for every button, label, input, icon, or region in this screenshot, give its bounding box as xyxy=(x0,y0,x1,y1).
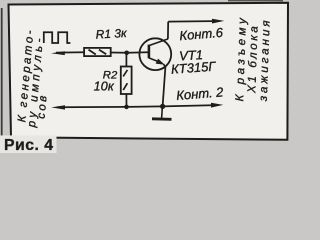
svg-text:КТ315Г: КТ315Г xyxy=(171,59,217,77)
resistor R2 power marks xyxy=(123,70,127,90)
label: К разъему X1 блока зажигания (right, rotated) xyxy=(234,14,273,102)
transistor emitter lead xyxy=(149,58,160,62)
node: emitter junction dot xyxy=(160,104,165,109)
resistor R1 body xyxy=(84,48,111,56)
wire: top rail to Конт.6 arrow xyxy=(168,20,213,23)
pulse waveform symbol xyxy=(44,32,71,43)
wire: R1 to base junction xyxy=(111,52,127,54)
transistor emitter arrow head xyxy=(156,59,165,65)
scan edge dark strip left xyxy=(1,8,3,141)
wire: bottom rail to Конт.2 arrow xyxy=(163,105,212,106)
transistor emitter continuation xyxy=(164,64,166,67)
arrow head: Конт.6 xyxy=(212,19,224,24)
svg-text:R1 3к: R1 3к xyxy=(95,26,128,42)
wire: input to R1 xyxy=(56,51,84,53)
figure caption box xyxy=(0,135,57,153)
frame interior xyxy=(9,3,289,140)
label: К генератору импульсов (left, rotated) xyxy=(16,27,49,128)
transistor base bar xyxy=(148,45,151,59)
resistor R2 body xyxy=(121,67,132,95)
wire: junction to transistor base xyxy=(127,51,149,54)
ground xyxy=(152,106,172,119)
transistor collector lead xyxy=(149,39,168,46)
svg-text:сов: сов xyxy=(36,93,50,119)
scan edge dark line top right xyxy=(228,0,283,1)
wire: R2 bottom lead xyxy=(125,94,127,107)
wire: bottom rail middle segment xyxy=(127,105,163,108)
node: R2 bottom junction dot xyxy=(124,105,129,110)
scan background outer xyxy=(0,0,297,153)
arrow head: to pulse generator (upper left) xyxy=(51,51,65,55)
wire: emitter vertical xyxy=(163,67,166,106)
frame border xyxy=(9,3,289,140)
wire: R2 top lead xyxy=(125,53,127,67)
arrow head: Конт.2 xyxy=(211,103,223,108)
svg-text:Рис. 4: Рис. 4 xyxy=(4,137,54,153)
resistor R1 power marks xyxy=(89,50,107,55)
wire: bottom rail left segment xyxy=(57,106,127,108)
node: base junction dot xyxy=(124,51,129,56)
arrow head: to pulse generator (lower left) xyxy=(51,105,65,109)
wire: collector vertical xyxy=(167,22,169,39)
transistor VT1 circle xyxy=(139,38,171,70)
svg-text:10к: 10к xyxy=(94,80,115,94)
